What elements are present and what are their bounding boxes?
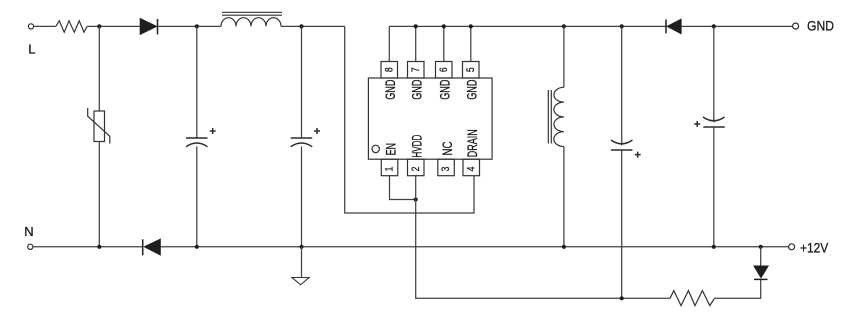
svg-text:GND: GND [410,79,425,99]
node pin7 bus [414,24,418,28]
node L2 top [562,24,566,28]
svg-text:1: 1 [384,167,396,172]
capacitor C3 [611,26,641,298]
svg-text:2: 2 [410,167,422,172]
node pin5 bus [469,24,473,28]
node C1 bottom [195,245,199,249]
inductor L2 [548,26,564,246]
wire N to D2 [33,246,143,248]
diode D4 [754,247,769,280]
svg-text:8: 8 [383,67,395,72]
svg-text:DRAIN: DRAIN [465,129,480,157]
capacitor C2 [291,26,320,246]
svg-text:7: 7 [410,67,422,72]
resistor R1 [56,21,87,32]
node C3 top [620,24,624,28]
svg-text:GND: GND [383,79,398,99]
pin 2 [408,134,425,175]
pin 7 [408,26,425,99]
terminal GND [793,17,834,33]
wire R1 to D1 [87,25,140,27]
node cap C1 top [195,24,199,28]
node C2 bottom / ground tap [299,245,303,249]
diode D3 [666,19,681,34]
svg-text:3: 3 [440,167,452,172]
wire L1 to corner [281,25,345,27]
svg-text:5: 5 [465,67,477,72]
node cap C2 top [299,24,303,28]
inductor L1 [221,12,282,26]
pin 1 [381,143,398,176]
svg-text:N: N [24,224,33,239]
diode D1 [140,18,158,35]
wire D1 to inductor L1 [158,25,222,27]
resistor R2 [670,291,715,306]
terminal L [28,24,35,57]
terminal N [24,224,33,249]
varistor RV1 [88,26,110,246]
svg-text:EN: EN [383,143,398,155]
svg-text:6: 6 [438,67,450,72]
ground [292,247,309,285]
wire EN pin1 to HVDD node [390,176,416,200]
wire top rail down to DRAIN pin 4 [345,26,474,213]
node pin6 bus [442,24,446,28]
capacitor C4 [694,26,725,246]
pin 3 [438,141,455,175]
pin 8 [381,26,398,99]
node C3 bottom on lower rail [620,296,624,300]
pin 6 [436,26,453,99]
svg-text:GND: GND [438,79,453,99]
node varistor bottom [97,245,101,249]
node top rail / varistor tap [97,24,101,28]
diode D2 [143,239,161,256]
svg-text:4: 4 [465,167,477,172]
wire D3 to GND terminal [681,25,792,27]
node C4 top [712,24,716,28]
node L2 bottom [562,245,566,249]
svg-text:GND: GND [807,17,834,33]
bottom rail N to +12V terminal [161,246,789,248]
wire HVDD pin2 down to lower rail [416,176,670,299]
svg-text:NC: NC [440,141,455,155]
node EN-HVDD junction [414,197,418,201]
node D4 top [759,245,763,249]
pin 5 [463,26,480,99]
IC U1 body [368,78,492,159]
capacitor C1 [186,26,216,246]
svg-text:+12V: +12V [800,239,829,255]
wire R2 to D4 [715,279,761,298]
svg-text:L: L [28,42,35,57]
GND bus over IC [389,25,666,27]
pin 1 indicator circle [372,145,379,152]
terminal +12V [789,239,829,255]
wire L to R1 [34,25,56,27]
svg-text:HVDD: HVDD [410,134,425,157]
node C4 bottom [712,245,716,249]
pin 4 [463,129,480,176]
svg-text:GND: GND [465,79,480,99]
